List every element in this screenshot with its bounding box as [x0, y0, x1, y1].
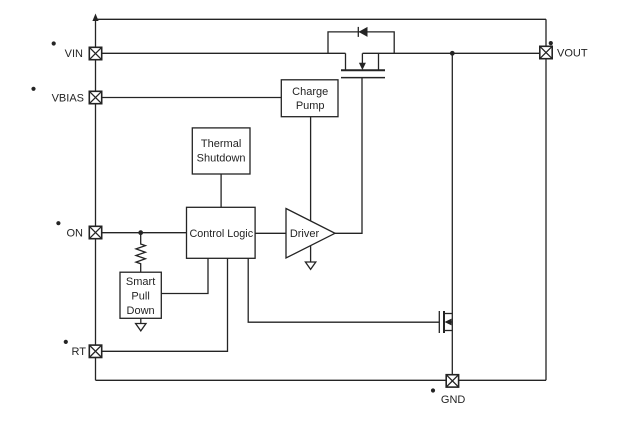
wire ON to control logic — [102, 232, 187, 234]
transistor Q2 discharge NMOS — [439, 311, 452, 333]
wire VIN to PMOS source — [102, 52, 346, 54]
body stub and arrow — [449, 321, 452, 323]
svg-text:Charge: Charge — [292, 86, 328, 98]
wire smart pull down to control logic — [161, 258, 208, 293]
svg-text:Thermal: Thermal — [201, 138, 241, 150]
wire control logic to NMOS gate — [248, 258, 439, 322]
wire PMOS gate to driver output — [335, 78, 362, 234]
node ON junction dot — [138, 230, 143, 235]
wire PMOS drain to VOUT — [363, 52, 540, 54]
channel bar — [443, 311, 445, 333]
bullet for VBIAS — [31, 87, 35, 91]
bullet for GND — [431, 388, 435, 392]
pin VOUT — [540, 46, 552, 58]
svg-text:Pull: Pull — [131, 291, 149, 303]
right border wire — [545, 19, 547, 380]
wire control logic to RT — [102, 258, 228, 351]
bullet for VIN — [52, 41, 56, 45]
block Control Logic — [187, 207, 256, 258]
svg-text:VBIAS: VBIAS — [52, 92, 84, 104]
drain stub — [444, 313, 452, 315]
top rail wire — [96, 18, 547, 20]
resistor R1 — [136, 233, 145, 273]
svg-text:Shutdown: Shutdown — [197, 152, 246, 164]
op-amp U1 driver triangle — [286, 209, 335, 259]
arrow up at top-left corner — [92, 14, 98, 22]
gate bar — [438, 311, 440, 333]
ground under smart pull down — [136, 324, 146, 331]
right vertical joining stubs — [451, 314, 453, 331]
bullet for RT — [64, 340, 68, 344]
block Smart Pull Down — [120, 272, 161, 318]
bottom rail wire — [96, 379, 547, 381]
source stub — [444, 330, 452, 332]
svg-text:ON: ON — [67, 228, 84, 240]
wire output node down to NMOS drain — [451, 53, 453, 313]
pin GND — [446, 375, 458, 387]
block Thermal Shutdown — [192, 128, 250, 174]
wire thermal shutdown to control logic — [220, 174, 222, 207]
left border wire — [95, 20, 97, 380]
svg-text:GND: GND — [441, 394, 466, 406]
transistor Q1 pass PMOS — [341, 53, 385, 77]
wire charge pump output into driver — [310, 117, 312, 228]
svg-text:VIN: VIN — [65, 48, 83, 60]
svg-text:Driver: Driver — [290, 228, 320, 240]
pin VIN — [89, 47, 101, 59]
svg-text:VOUT: VOUT — [557, 48, 588, 60]
block Charge Pump — [281, 80, 338, 117]
pin RT — [89, 345, 101, 357]
channel bar — [341, 69, 385, 71]
svg-text:Smart: Smart — [126, 276, 155, 288]
wire NMOS source to GND pin — [451, 331, 453, 375]
pin VBIAS — [89, 91, 101, 103]
ground under driver — [305, 262, 315, 269]
node output junction dot — [450, 51, 455, 56]
wire control logic to driver — [255, 232, 286, 234]
wire smart pull down to ground — [140, 318, 142, 323]
wire VBIAS to charge pump — [102, 97, 282, 99]
bullet for VOUT — [549, 41, 553, 45]
svg-text:Control Logic: Control Logic — [189, 228, 253, 240]
body arrow down — [361, 53, 363, 63]
svg-text:Pump: Pump — [296, 100, 325, 112]
pin ON — [89, 226, 101, 238]
bullet for ON — [56, 221, 60, 225]
source leg — [345, 53, 347, 69]
diode D1 body diode loop — [328, 27, 394, 53]
drain leg — [378, 53, 380, 69]
svg-text:RT: RT — [72, 346, 87, 358]
svg-text:Down: Down — [127, 305, 155, 317]
gate bar — [341, 77, 385, 79]
wire driver to ground — [310, 246, 312, 262]
